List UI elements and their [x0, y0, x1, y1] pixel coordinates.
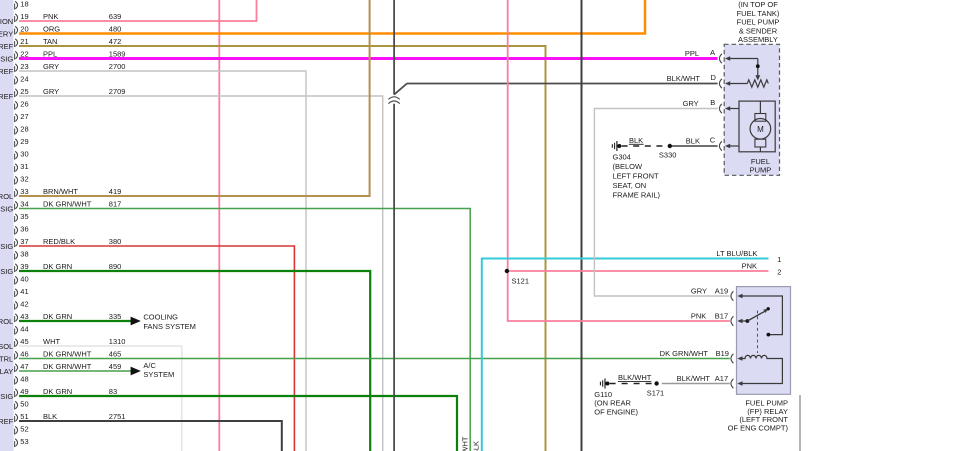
label PNK and node 2	[742, 262, 782, 277]
svg-text:83: 83	[109, 387, 117, 396]
svg-text:465: 465	[109, 350, 122, 359]
svg-text:GRY: GRY	[43, 62, 59, 71]
svg-text:817: 817	[109, 200, 122, 209]
label BLK (right, over solid wire)	[686, 137, 700, 146]
svg-text:DK GRN: DK GRN	[43, 312, 72, 321]
label COOLING FANS SYSTEM	[143, 313, 196, 331]
svg-text:GRY: GRY	[683, 99, 699, 108]
wire WHT 1310 (pin 45, right then down off bottom)	[19, 346, 182, 451]
svg-text:BLK: BLK	[686, 137, 700, 146]
pin 42 of connector C1	[15, 300, 29, 310]
pin 26 of connector C1	[15, 100, 29, 110]
svg-text:639: 639	[109, 12, 122, 21]
svg-text:52: 52	[20, 425, 28, 434]
pin 22 of connector C1	[0, 50, 125, 64]
svg-text:SIG: SIG	[0, 205, 13, 214]
svg-text:DK GRN/WHT: DK GRN/WHT	[43, 350, 92, 359]
ground G110	[600, 379, 609, 389]
wire ORG 480 (pin 20, right then up off top)	[19, 0, 645, 34]
wire BLK/WHT vertical from top with break symbol, to fuel pump pin D	[394, 0, 717, 451]
svg-text:& SENDER: & SENDER	[739, 26, 778, 35]
svg-text:39: 39	[20, 262, 28, 271]
svg-text:19: 19	[20, 12, 28, 21]
svg-text:ASSEMBLY: ASSEMBLY	[738, 35, 778, 44]
wire DK GRN 83 (pin 49, right then down off bottom)	[19, 396, 457, 451]
svg-text:36: 36	[20, 225, 28, 234]
svg-text:FANS SYSTEM: FANS SYSTEM	[143, 322, 196, 331]
wire BLK vertical pass-through at x=581.5	[581, 0, 583, 451]
relay movable contact arm (B17)	[743, 307, 770, 323]
svg-text:REF: REF	[0, 67, 14, 76]
svg-text:(IN TOP OF: (IN TOP OF	[738, 0, 778, 9]
pin C of fuel pump (BLK)	[710, 136, 739, 151]
pin 18 of connector C1	[15, 0, 29, 10]
svg-text:SIG: SIG	[0, 267, 13, 276]
svg-text:30: 30	[20, 150, 28, 159]
svg-text:LT BLU/BLK: LT BLU/BLK	[472, 441, 481, 451]
svg-text:OF ENGINE): OF ENGINE)	[594, 408, 638, 417]
pin 53 of connector C1	[15, 437, 29, 447]
svg-text:2700: 2700	[109, 62, 126, 71]
svg-text:COOLING: COOLING	[143, 313, 178, 322]
svg-text:DK GRN: DK GRN	[43, 262, 72, 271]
svg-text:PNK: PNK	[691, 311, 706, 320]
svg-text:2: 2	[777, 268, 781, 277]
pin 50 of connector C1	[15, 400, 29, 410]
svg-text:43: 43	[20, 312, 28, 321]
svg-text:B17: B17	[715, 311, 728, 320]
svg-text:OF ENG COMPT): OF ENG COMPT)	[728, 424, 789, 433]
svg-text:SYSTEM: SYSTEM	[143, 370, 174, 379]
svg-text:WHT: WHT	[43, 337, 60, 346]
svg-text:BRN/WHT: BRN/WHT	[43, 187, 78, 196]
svg-text:DK GRN/WHT: DK GRN/WHT	[460, 436, 469, 451]
svg-text:DK GRN/WHT: DK GRN/WHT	[660, 349, 709, 358]
pin B of fuel pump (GRY)	[683, 98, 739, 113]
pin 37 of connector C1	[0, 237, 121, 251]
svg-text:42: 42	[20, 300, 28, 309]
pin 40 of connector C1	[15, 275, 29, 285]
svg-text:REF: REF	[0, 42, 14, 51]
pin 19 of connector C1	[0, 12, 121, 26]
fuel pump and sender assembly U1 (dashed box)	[724, 44, 779, 175]
pin B17 of relay (PNK)	[691, 311, 743, 325]
svg-text:FRAME RAIL): FRAME RAIL)	[613, 190, 661, 199]
svg-text:S121: S121	[512, 277, 530, 286]
svg-text:PUMP: PUMP	[750, 166, 772, 175]
pin 39 of connector C1	[0, 262, 121, 276]
svg-text:41: 41	[20, 287, 28, 296]
wire PPL 1589 (pin 22 to fuel pump pin A)	[19, 57, 718, 60]
label BLK/WHT (underlined, over dashed wire)	[618, 373, 652, 382]
label LT BLU/BLK rotated at bottom of x=481.8 wire	[472, 441, 481, 451]
wire GRY 2700 (pin 23, right then down off bottom)	[19, 71, 306, 451]
svg-text:ROL: ROL	[0, 317, 13, 326]
svg-text:DK GRN/WHT: DK GRN/WHT	[43, 200, 92, 209]
unlabeled gray line bottom right	[799, 395, 801, 451]
pin 32 of connector C1	[15, 175, 29, 185]
label BLK (underlined, over dashed wire)	[629, 136, 644, 145]
svg-text:49: 49	[20, 387, 28, 396]
svg-text:GRY: GRY	[691, 286, 707, 295]
svg-text:ERY: ERY	[0, 30, 13, 39]
svg-text:21: 21	[20, 37, 28, 46]
svg-text:A/C: A/C	[143, 361, 156, 370]
svg-text:47: 47	[20, 362, 28, 371]
wire GRY (fuel pump pin B to relay pin A19)	[594, 109, 729, 297]
fuel pump (FP) relay K1 (box)	[737, 287, 791, 395]
svg-text:PPL: PPL	[685, 49, 699, 58]
wire BLK 2751 (pin 51, right then down off bottom)	[19, 421, 282, 451]
pin 43 of connector C1	[0, 312, 121, 326]
svg-text:32: 32	[20, 175, 28, 184]
svg-text:31: 31	[20, 162, 28, 171]
wire BLK/WHT dashed (G110 to S171)	[610, 383, 655, 385]
splice S171	[647, 381, 665, 397]
pin 20 of connector C1	[0, 25, 121, 39]
splice S121	[505, 269, 529, 286]
svg-text:23: 23	[20, 62, 28, 71]
svg-text:33: 33	[20, 187, 28, 196]
svg-text:TRL: TRL	[0, 355, 13, 364]
svg-text:PNK: PNK	[742, 262, 757, 271]
pin 52 of connector C1	[15, 425, 29, 435]
label A/C SYSTEM	[143, 361, 174, 379]
svg-text:335: 335	[109, 312, 122, 321]
svg-text:890: 890	[109, 262, 122, 271]
svg-text:S330: S330	[659, 151, 677, 160]
connector C1 (PCM, left edge band)	[0, 0, 14, 451]
svg-text:25: 25	[20, 87, 28, 96]
svg-text:SIG: SIG	[0, 55, 13, 64]
wire DK GRN/WHT 817 (pin 34, right then down off bottom)	[19, 209, 470, 451]
svg-text:380: 380	[109, 237, 122, 246]
svg-text:2709: 2709	[109, 87, 126, 96]
pin 38 of connector C1	[15, 250, 29, 260]
svg-text:37: 37	[20, 237, 28, 246]
svg-text:B: B	[710, 98, 715, 107]
svg-text:A19: A19	[715, 286, 728, 295]
svg-text:SIG: SIG	[0, 242, 13, 251]
pin D of fuel pump (BLK/WHT)	[667, 73, 748, 88]
svg-text:459: 459	[109, 362, 122, 371]
wire DK GRN/WHT 459 (pin 47 to A/C system)	[19, 370, 132, 372]
fuel level sender resistor	[747, 80, 768, 87]
svg-text:A: A	[710, 48, 715, 57]
pin 41 of connector C1	[15, 287, 29, 297]
wire BLK/WHT (S171 to relay pin A17)	[662, 383, 730, 385]
svg-text:REF: REF	[0, 417, 14, 426]
svg-text:SEAT, ON: SEAT, ON	[613, 181, 647, 190]
svg-text:29: 29	[20, 137, 28, 146]
svg-text:LT BLU/BLK: LT BLU/BLK	[716, 249, 757, 258]
svg-text:1310: 1310	[109, 337, 126, 346]
svg-text:PNK: PNK	[43, 12, 58, 21]
pin 29 of connector C1	[15, 137, 29, 147]
arrow to A/C SYSTEM	[131, 367, 141, 376]
relay contact from A19 (to fixed contact)	[743, 296, 783, 337]
pin 35 of connector C1	[15, 212, 29, 222]
svg-text:38: 38	[20, 250, 28, 259]
wire PNK from top at x=507.7 to splice S121, branch to node 2 and relay B17	[508, 0, 769, 321]
svg-text:472: 472	[109, 37, 122, 46]
pin A19 of relay (GRY)	[691, 286, 743, 300]
wire BLK (S330 to fuel pump pin C)	[670, 145, 718, 147]
pin 28 of connector C1	[15, 125, 29, 135]
svg-text:BLK/WHT: BLK/WHT	[618, 373, 652, 382]
pin 51 of connector C1	[0, 412, 125, 426]
pin 48 of connector C1	[15, 375, 29, 385]
label DK GRN/WHT rotated at bottom of x=470 wire	[460, 436, 469, 451]
svg-text:27: 27	[20, 112, 28, 121]
svg-text:REF: REF	[0, 92, 14, 101]
svg-text:S171: S171	[647, 388, 665, 397]
label LT BLU/BLK and node 1	[716, 249, 781, 264]
relay coil	[743, 355, 783, 383]
svg-text:ROL: ROL	[0, 192, 13, 201]
svg-text:48: 48	[20, 375, 28, 384]
svg-text:DK GRN/WHT: DK GRN/WHT	[43, 362, 92, 371]
svg-text:TION: TION	[0, 17, 13, 26]
wire RED/BLK 380 (pin 37, right then down off bottom)	[19, 246, 294, 451]
pin 47 of connector C1	[0, 362, 121, 376]
svg-text:LEFT FRONT: LEFT FRONT	[613, 172, 660, 181]
svg-text:BLK: BLK	[629, 136, 643, 145]
pin 49 of connector C1	[0, 387, 117, 401]
wire DK GRN 335 (pin 43 to cooling fans system)	[19, 320, 132, 322]
svg-text:B19: B19	[716, 349, 729, 358]
wire PNK 639 (pin 19, runs right then up off top)	[19, 0, 257, 21]
pin B19 of relay (DK GRN/WHT)	[660, 349, 743, 363]
wire BRN/WHT 419 (pin 33, right then up off top)	[19, 0, 370, 196]
svg-text:34: 34	[20, 200, 28, 209]
svg-text:35: 35	[20, 212, 28, 221]
svg-text:2751: 2751	[109, 412, 126, 421]
pin 46 of connector C1	[0, 350, 121, 364]
svg-text:26: 26	[20, 100, 28, 109]
svg-text:G110: G110	[594, 390, 612, 399]
svg-text:24: 24	[20, 75, 28, 84]
pin 45 of connector C1	[0, 337, 125, 351]
svg-text:DK GRN: DK GRN	[43, 387, 72, 396]
wire break symbol (double arc) at x=394	[388, 97, 399, 104]
svg-text:RED/BLK: RED/BLK	[43, 237, 75, 246]
svg-text:28: 28	[20, 125, 28, 134]
svg-text:SOL: SOL	[0, 342, 13, 351]
svg-text:A17: A17	[715, 374, 728, 383]
wire PNK (vertical pass-through at x=219)	[218, 0, 220, 451]
svg-text:40: 40	[20, 275, 28, 284]
svg-text:C: C	[710, 136, 716, 145]
svg-text:D: D	[710, 73, 716, 82]
wire BLK dashed (G304 to S330)	[622, 145, 668, 147]
label (IN TOP OF FUEL TANK) FUEL PUMP & SENDER ASSEMBLY	[737, 0, 780, 44]
svg-text:(ON REAR: (ON REAR	[594, 399, 631, 408]
svg-text:1: 1	[777, 255, 781, 264]
svg-text:BLK: BLK	[43, 412, 57, 421]
wire DK GRN 890 (pin 39, right then down off bottom)	[19, 271, 370, 451]
svg-text:46: 46	[20, 350, 28, 359]
pin 31 of connector C1	[15, 162, 29, 172]
svg-text:(BELOW: (BELOW	[613, 162, 644, 171]
svg-text:LAY: LAY	[0, 367, 13, 376]
wire DK GRN/WHT 465 (pin 46 to relay pin B19)	[19, 358, 730, 360]
svg-text:18: 18	[20, 0, 28, 9]
svg-text:BLK/WHT: BLK/WHT	[667, 74, 701, 83]
svg-text:G304: G304	[613, 153, 631, 162]
fuel pump motor M1 (box, brushes, M circle)	[739, 101, 775, 152]
pin 27 of connector C1	[15, 112, 29, 122]
pin 24 of connector C1	[15, 75, 29, 85]
pin 34 of connector C1	[0, 200, 121, 214]
ground G304	[612, 141, 621, 151]
pin A17 of relay (BLK/WHT)	[677, 374, 743, 388]
svg-text:GRY: GRY	[43, 87, 59, 96]
pin 21 of connector C1	[0, 37, 121, 51]
wire GRY 2709 (pin 25, right then down off bottom)	[19, 96, 383, 451]
svg-text:44: 44	[20, 325, 28, 334]
pin 44 of connector C1	[15, 325, 29, 335]
wire LT BLU/BLK from bottom to node 1	[482, 259, 769, 451]
pin 25 of connector C1	[0, 87, 125, 101]
svg-text:BLK/WHT: BLK/WHT	[677, 374, 711, 383]
wire TAN 472 (pin 21, right then down off bottom)	[19, 46, 546, 451]
label G304 (BELOW LEFT FRONT SEAT, ON FRAME RAIL)	[613, 153, 661, 200]
pin 30 of connector C1	[15, 150, 29, 160]
svg-text:FUEL TANK): FUEL TANK)	[737, 9, 780, 18]
svg-text:53: 53	[20, 437, 28, 446]
pin A of fuel pump (PPL)	[685, 48, 758, 63]
svg-text:51: 51	[20, 412, 28, 421]
splice S330	[659, 144, 677, 160]
arrow to COOLING FANS SYSTEM	[131, 317, 141, 326]
svg-text:TAN: TAN	[43, 37, 57, 46]
relay actuation dashed link	[757, 311, 759, 354]
pin 36 of connector C1	[15, 225, 29, 235]
fuel level sender wiper arrow	[755, 59, 760, 81]
svg-text:45: 45	[20, 337, 28, 346]
pin 33 of connector C1	[0, 187, 121, 201]
label FUEL PUMP (FP) RELAY (LEFT FRONT OF ENG COMPT)	[728, 398, 789, 432]
svg-text:419: 419	[109, 187, 122, 196]
svg-text:50: 50	[20, 400, 28, 409]
pin 23 of connector C1	[0, 62, 125, 76]
svg-text:FUEL PUMP: FUEL PUMP	[737, 18, 780, 27]
svg-text:SIG: SIG	[0, 392, 13, 401]
label G110 (ON REAR OF ENGINE)	[594, 390, 638, 417]
svg-text:M: M	[757, 125, 764, 134]
label FUEL PUMP (under motor)	[750, 157, 772, 175]
